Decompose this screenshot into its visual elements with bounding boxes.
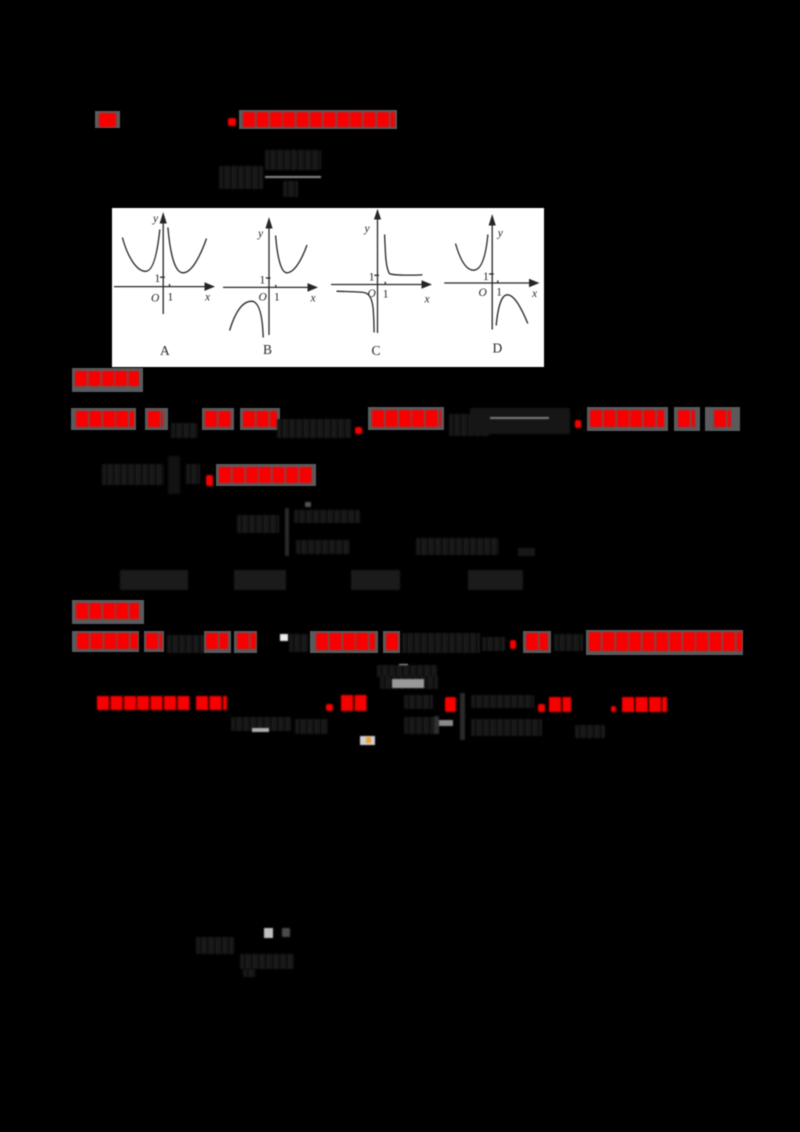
svg-text:A: A bbox=[160, 343, 170, 358]
svg-text:1: 1 bbox=[369, 272, 375, 284]
svg-text:1: 1 bbox=[383, 289, 389, 301]
svg-text:C: C bbox=[372, 343, 381, 358]
svg-text:x: x bbox=[204, 292, 211, 304]
svg-text:1: 1 bbox=[168, 292, 174, 304]
svg-text:y: y bbox=[364, 223, 371, 235]
svg-text:D: D bbox=[493, 341, 503, 356]
svg-text:1: 1 bbox=[260, 275, 266, 287]
svg-text:1: 1 bbox=[274, 292, 280, 304]
svg-text:x: x bbox=[531, 288, 538, 300]
svg-text:x: x bbox=[424, 294, 431, 306]
svg-text:1: 1 bbox=[483, 271, 489, 283]
svg-text:1: 1 bbox=[155, 273, 161, 285]
svg-text:O: O bbox=[368, 288, 377, 300]
svg-text:y: y bbox=[152, 213, 159, 225]
svg-text:y: y bbox=[497, 228, 504, 240]
svg-text:1: 1 bbox=[496, 287, 502, 299]
svg-text:O: O bbox=[259, 292, 268, 304]
svg-text:O: O bbox=[151, 293, 160, 305]
svg-text:O: O bbox=[479, 287, 488, 299]
svg-text:y: y bbox=[257, 228, 264, 240]
svg-text:x: x bbox=[310, 292, 317, 304]
svg-text:B: B bbox=[263, 342, 272, 357]
